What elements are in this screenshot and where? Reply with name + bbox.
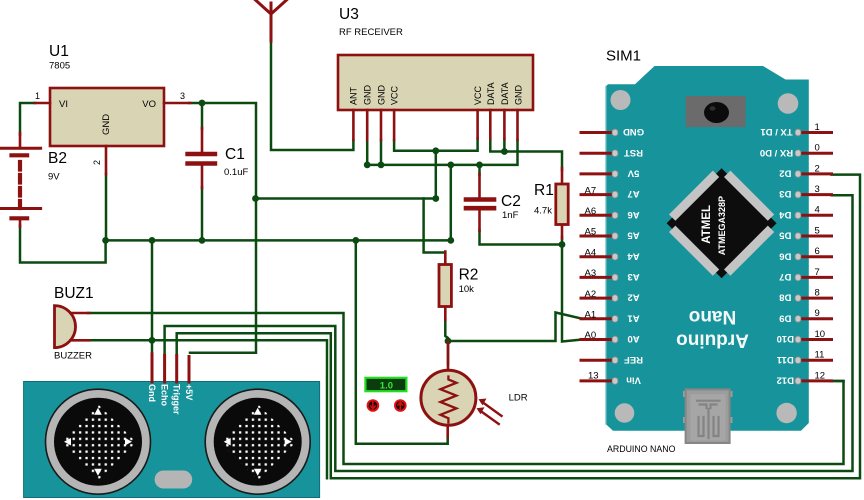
svg-text:Nano: Nano xyxy=(689,306,737,327)
wire C1 bottom lead xyxy=(201,187,204,240)
svg-text:Echo: Echo xyxy=(159,384,169,407)
arduino pin D6 (right row 6) xyxy=(779,246,831,261)
svg-text:1.0: 1.0 xyxy=(380,380,393,391)
ultrasonic pin stubs xyxy=(152,354,189,382)
svg-text:B2: B2 xyxy=(48,150,67,167)
wire branch to R2 top xyxy=(424,199,446,253)
svg-text:12: 12 xyxy=(815,370,826,381)
resistor R1 4.7k xyxy=(556,168,568,239)
arduino pin TX / D1 (right row 0) xyxy=(760,122,832,137)
USB mini connector xyxy=(683,389,733,443)
arduino pin A5 (left row 5) xyxy=(581,230,640,241)
svg-text:ARDUINO NANO: ARDUINO NANO xyxy=(607,444,676,454)
arduino pin A0 (left row 10) xyxy=(581,333,640,344)
wire BUZ1 plus to D12 xyxy=(88,313,844,464)
wire A1 net from LDR junction xyxy=(448,313,583,342)
svg-text:D3: D3 xyxy=(779,188,791,199)
svg-text:A5: A5 xyxy=(627,230,640,241)
svg-text:0: 0 xyxy=(815,143,820,154)
svg-text:RX / D0: RX / D0 xyxy=(760,147,793,158)
capacitor C1 0.1uF xyxy=(188,128,216,188)
svg-text:D10: D10 xyxy=(777,333,794,344)
svg-text:SIM1: SIM1 xyxy=(606,48,641,65)
wire Trigger to D2 xyxy=(177,175,860,479)
svg-text:A0: A0 xyxy=(627,333,639,344)
svg-text:D8: D8 xyxy=(779,292,791,303)
arduino pin A2 (left row 8) xyxy=(581,292,640,303)
arduino pin 5V (left row 2) xyxy=(581,167,639,178)
arduino pin D3 (right row 3) xyxy=(779,184,831,199)
svg-text:A0: A0 xyxy=(585,330,597,341)
wire C2 top lead xyxy=(478,165,481,175)
wire C1 top lead xyxy=(201,103,204,129)
svg-text:GND: GND xyxy=(363,85,373,106)
svg-text:Arduino: Arduino xyxy=(676,330,749,351)
arduino pin D12 (right row 12) xyxy=(777,370,832,385)
arduino pin Vin (left row 12) xyxy=(581,375,641,386)
svg-text:A7: A7 xyxy=(585,185,597,196)
svg-text:BUZZER: BUZZER xyxy=(54,351,92,362)
arduino pin REF (left row 11) xyxy=(581,354,643,365)
svg-text:5V: 5V xyxy=(627,167,639,178)
svg-text:BUZ1: BUZ1 xyxy=(54,285,94,302)
ultrasonic transducer left xyxy=(46,389,151,494)
arduino pin GND (left row 0) xyxy=(581,126,644,137)
svg-text:4: 4 xyxy=(815,205,820,216)
svg-text:U3: U3 xyxy=(339,6,359,23)
svg-text:LDR: LDR xyxy=(509,393,528,404)
wire R2 bottom to LDR junction xyxy=(445,319,448,341)
wire GND rail xyxy=(106,239,451,242)
wire VCC rail down to +5V rail xyxy=(435,151,438,199)
LDR up button xyxy=(395,400,406,411)
svg-text:Vin: Vin xyxy=(626,375,641,386)
capacitor C2 1nF xyxy=(466,174,494,231)
svg-text:11: 11 xyxy=(815,350,825,361)
svg-text:4.7k: 4.7k xyxy=(534,206,552,217)
svg-text:D4: D4 xyxy=(779,209,792,220)
wire D12 stub link xyxy=(830,380,844,383)
svg-text:1: 1 xyxy=(35,91,40,101)
ultrasonic crystal pill xyxy=(155,471,193,489)
svg-text:1nF: 1nF xyxy=(502,210,519,221)
svg-text:VI: VI xyxy=(59,99,68,110)
svg-text:D2: D2 xyxy=(779,167,791,178)
wire U1 pin2 GND down xyxy=(105,174,108,240)
svg-text:C1: C1 xyxy=(225,146,245,163)
wire U3 gnd net to GND rail xyxy=(450,165,453,241)
svg-text:5: 5 xyxy=(815,225,820,236)
svg-text:DATA: DATA xyxy=(486,82,496,105)
wire DATA net to R1 top xyxy=(490,139,562,170)
mounting hole bottom-left xyxy=(615,403,635,423)
buzzer BUZ1 xyxy=(55,306,90,348)
wire VI input from battery top xyxy=(20,103,35,135)
svg-text:10: 10 xyxy=(815,329,826,340)
wire C2 bottom to R1 bottom xyxy=(480,230,563,245)
svg-text:RF RECEIVER: RF RECEIVER xyxy=(339,27,403,38)
svg-text:3: 3 xyxy=(815,184,820,195)
svg-text:ATMEGA328P: ATMEGA328P xyxy=(717,196,727,255)
wire GND net of U3 y=165 xyxy=(367,140,517,165)
svg-text:2: 2 xyxy=(815,163,820,174)
svg-text:DATA: DATA xyxy=(500,82,510,105)
svg-text:A5: A5 xyxy=(585,227,597,238)
svg-text:GND: GND xyxy=(101,114,112,135)
svg-text:VCC: VCC xyxy=(390,85,400,105)
arduino pin A1 (left row 9) xyxy=(581,312,640,323)
ultrasonic transducer right xyxy=(205,389,310,494)
svg-text:+5V: +5V xyxy=(184,384,194,400)
svg-text:9: 9 xyxy=(815,308,820,319)
arduino pin A3 (left row 7) xyxy=(581,271,640,282)
wire LDR top lead xyxy=(447,341,450,365)
svg-text:D7: D7 xyxy=(779,271,791,282)
svg-text:D12: D12 xyxy=(777,375,794,386)
arduino pin A4 (left row 6) xyxy=(581,250,640,261)
svg-text:A7: A7 xyxy=(627,188,639,199)
board name Arduino Nano xyxy=(676,306,749,351)
wire battery minus to GND rail xyxy=(20,226,106,263)
wire Echo to D3 xyxy=(165,195,853,471)
svg-text:1: 1 xyxy=(815,122,820,133)
svg-text:RST: RST xyxy=(624,147,643,158)
svg-text:VO: VO xyxy=(142,99,156,110)
svg-text:GND: GND xyxy=(623,126,644,137)
wire antenna to ANT pin xyxy=(271,41,353,150)
svg-text:A4: A4 xyxy=(585,247,597,258)
svg-text:U1: U1 xyxy=(49,43,69,60)
mounting hole top-left xyxy=(611,90,631,110)
svg-text:D6: D6 xyxy=(779,250,791,261)
arduino pin D7 (right row 7) xyxy=(779,267,831,282)
arduino pin D2 (right row 2) xyxy=(779,163,831,178)
svg-text:ATMEL: ATMEL xyxy=(701,205,713,244)
LDR down button xyxy=(368,400,379,411)
ultrasonic sensor board xyxy=(24,382,320,498)
svg-text:GND: GND xyxy=(514,85,524,106)
svg-text:A2: A2 xyxy=(585,289,597,300)
arduino nano SIM1 board xyxy=(606,66,809,431)
arduino pin D9 (right row 9) xyxy=(779,308,831,323)
svg-text:A1: A1 xyxy=(585,310,597,321)
LDR value display xyxy=(365,378,406,392)
wire LDR bottom to GND rail xyxy=(356,240,448,443)
svg-text:6: 6 xyxy=(815,246,820,257)
svg-text:A1: A1 xyxy=(627,312,640,323)
svg-text:A2: A2 xyxy=(627,292,639,303)
svg-text:A6: A6 xyxy=(627,209,639,220)
svg-text:C2: C2 xyxy=(501,193,521,210)
arduino pin RST (left row 1) xyxy=(581,147,643,158)
mounting hole top-right xyxy=(778,93,799,114)
svg-text:Gnd: Gnd xyxy=(147,384,157,402)
wire +5V rail y=199 xyxy=(256,197,436,200)
svg-text:R1: R1 xyxy=(534,182,554,199)
resistor R2 10k xyxy=(439,252,451,321)
arduino pin D11 (right row 11) xyxy=(776,350,831,365)
svg-text:2: 2 xyxy=(92,160,102,165)
svg-text:10k: 10k xyxy=(459,284,475,295)
arduino pin D5 (right row 5) xyxy=(779,225,832,240)
arduino pin D8 (right row 8) xyxy=(779,288,831,303)
svg-text:ANT: ANT xyxy=(349,86,359,105)
LDR xyxy=(421,342,502,438)
svg-text:9V: 9V xyxy=(48,172,60,183)
wire BUZ1 minus to gnd bundle xyxy=(88,340,327,478)
RF receiver U3 xyxy=(338,55,533,140)
arduino pin D10 (right row 10) xyxy=(777,329,832,344)
svg-text:D11: D11 xyxy=(776,354,794,365)
crystal xyxy=(686,96,746,127)
svg-text:REF: REF xyxy=(624,354,643,365)
wire VO output rail to +5V vertical xyxy=(189,103,256,353)
svg-text:Trigger: Trigger xyxy=(172,384,182,415)
svg-text:TX / D1: TX / D1 xyxy=(760,126,793,137)
svg-text:8: 8 xyxy=(815,288,820,299)
svg-text:GND: GND xyxy=(377,85,387,106)
microcontroller U-ATMEGA328P chip xyxy=(667,168,777,278)
svg-text:7: 7 xyxy=(815,267,820,278)
wire VCC rail of U3 xyxy=(394,139,478,151)
wire A0 net from R1 bottom xyxy=(562,245,583,342)
svg-text:A3: A3 xyxy=(585,268,597,279)
svg-text:VCC: VCC xyxy=(473,85,483,105)
svg-text:R2: R2 xyxy=(459,267,479,284)
wire ultrasonic Gnd up to GND rail xyxy=(151,240,154,355)
svg-text:0.1uF: 0.1uF xyxy=(224,167,248,178)
battery B2 xyxy=(0,133,41,227)
svg-text:7805: 7805 xyxy=(49,61,70,72)
mounting hole bottom-right xyxy=(776,403,796,423)
svg-text:A6: A6 xyxy=(585,206,597,217)
arduino pin A6 (left row 4) xyxy=(581,209,640,220)
svg-text:3: 3 xyxy=(180,91,185,101)
regulator U1 7805 xyxy=(35,88,190,174)
svg-text:D9: D9 xyxy=(779,312,791,323)
svg-text:A4: A4 xyxy=(627,250,640,261)
svg-text:A3: A3 xyxy=(627,271,639,282)
arduino pin A7 (left row 3) xyxy=(581,188,640,199)
svg-text:13: 13 xyxy=(588,371,599,382)
arduino pin D4 (right row 4) xyxy=(779,205,832,220)
svg-text:D5: D5 xyxy=(779,230,792,241)
arduino pin RX / D0 (right row 1) xyxy=(760,143,832,158)
antenna xyxy=(256,0,287,41)
